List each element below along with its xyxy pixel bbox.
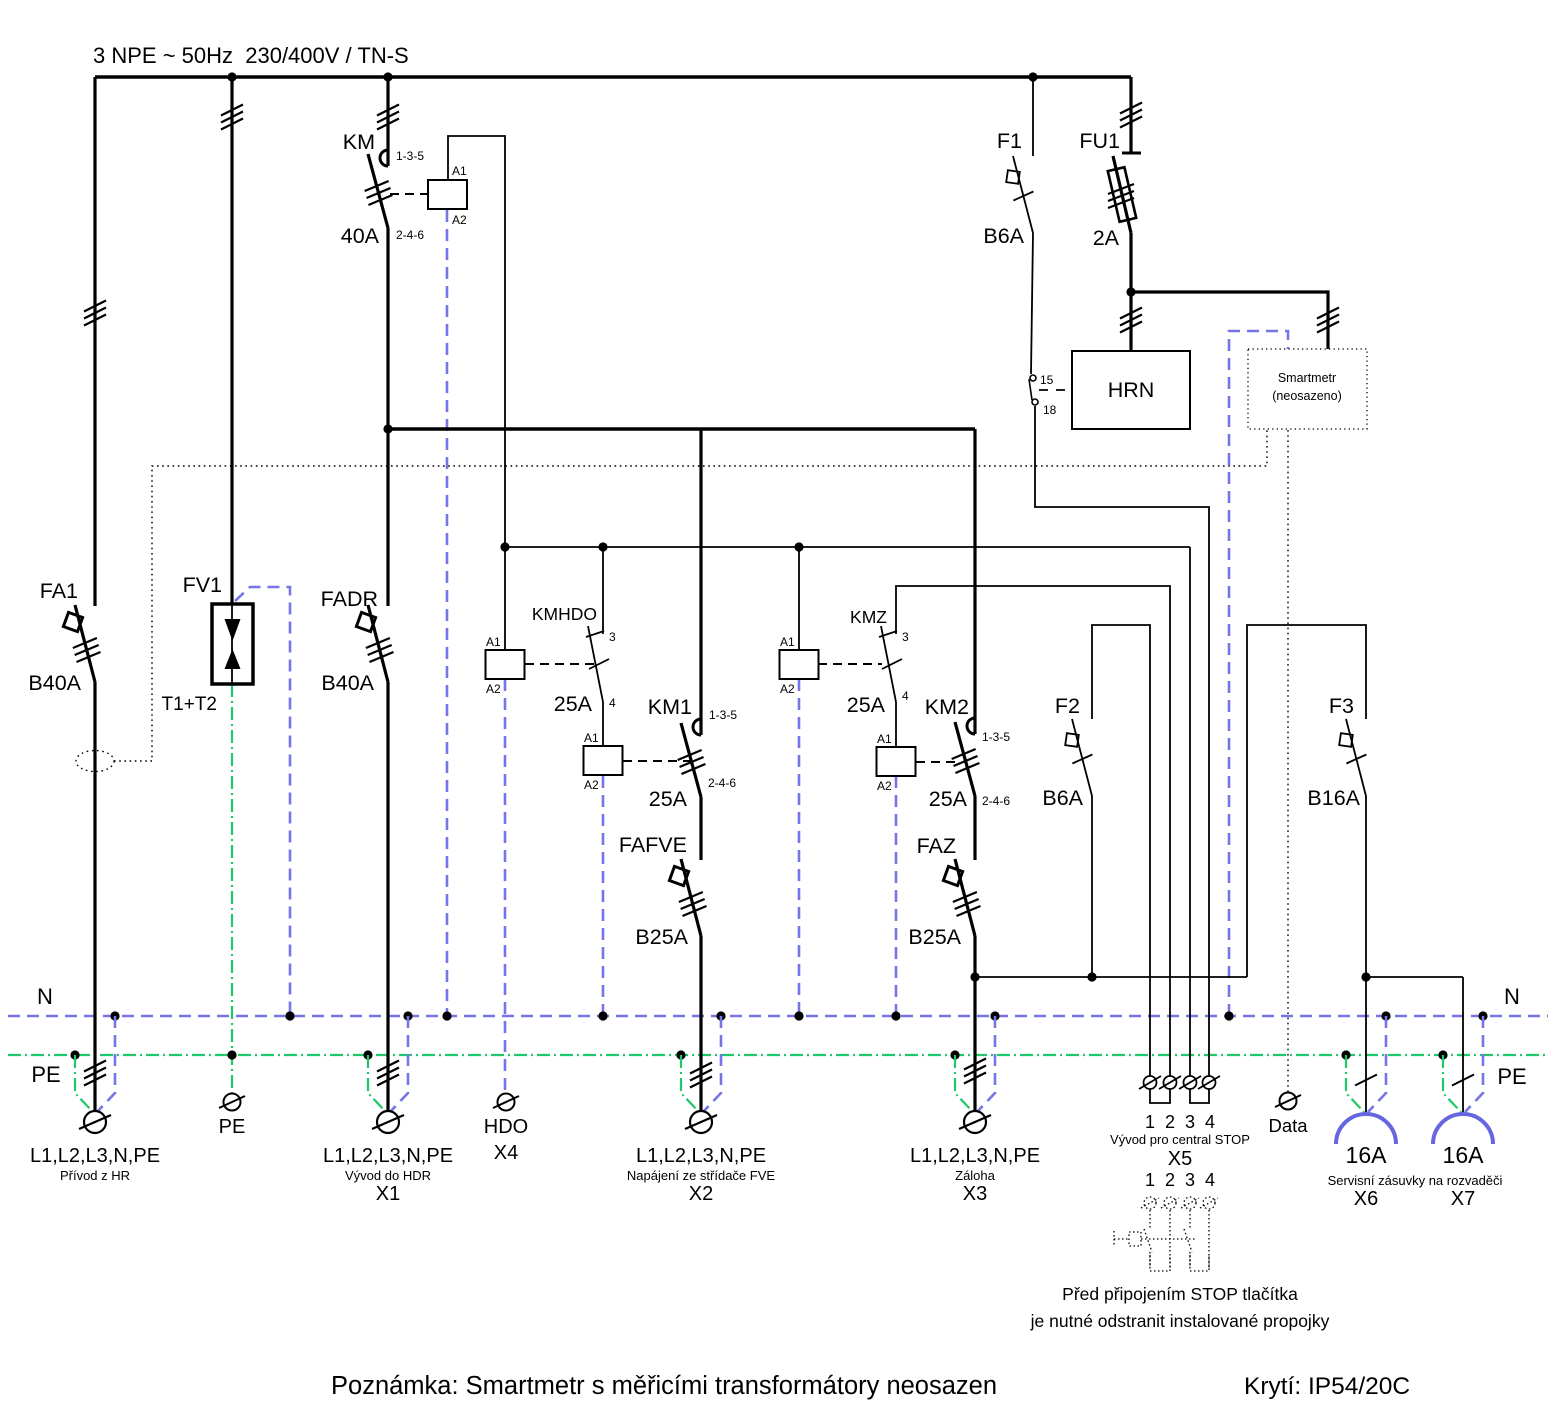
svg-text:Data: Data [1268,1115,1308,1136]
svg-text:4: 4 [902,689,909,703]
svg-text:KM: KM [343,130,375,154]
svg-text:L1,L2,L3,N,PE: L1,L2,L3,N,PE [30,1145,160,1167]
svg-text:KMHDO: KMHDO [532,604,597,624]
svg-text:FAFVE: FAFVE [619,833,687,857]
svg-text:B6A: B6A [983,224,1024,248]
svg-text:16A: 16A [1346,1142,1388,1168]
svg-text:X1: X1 [376,1183,400,1205]
svg-text:A2: A2 [780,682,795,696]
svg-text:2-4-6: 2-4-6 [708,776,736,790]
svg-text:4: 4 [1205,1112,1215,1132]
svg-text:N: N [1504,984,1520,1009]
svg-text:L1,L2,L3,N,PE: L1,L2,L3,N,PE [323,1145,453,1167]
svg-text:Vývod do HDR: Vývod do HDR [345,1168,431,1183]
svg-text:1: 1 [1145,1112,1155,1132]
svg-text:N: N [37,984,53,1009]
svg-text:1-3-5: 1-3-5 [396,149,424,163]
svg-text:je nutné odstranit instalované: je nutné odstranit instalované propojky [1030,1311,1330,1331]
svg-text:F1: F1 [997,129,1022,153]
svg-text:2A: 2A [1093,226,1120,250]
svg-text:B16A: B16A [1307,786,1360,810]
svg-text:B25A: B25A [908,925,961,949]
svg-text:FADR: FADR [321,587,378,611]
svg-text:1-3-5: 1-3-5 [709,708,737,722]
svg-text:B25A: B25A [635,925,688,949]
svg-text:Servisní zásuvky na rozvaděči: Servisní zásuvky na rozvaděči [1328,1173,1503,1188]
svg-text:25A: 25A [847,693,886,717]
svg-text:Vývod pro central STOP: Vývod pro central STOP [1110,1132,1250,1147]
svg-text:X3: X3 [963,1183,987,1205]
svg-text:3: 3 [609,630,616,644]
svg-text:T1+T2: T1+T2 [162,694,217,715]
svg-text:A1: A1 [584,731,599,745]
svg-text:FA1: FA1 [40,579,78,603]
svg-text:3: 3 [1185,1112,1195,1132]
svg-text:A2: A2 [452,213,467,227]
svg-text:X2: X2 [689,1183,713,1205]
svg-text:(neosazeno): (neosazeno) [1272,389,1342,403]
svg-text:25A: 25A [649,787,688,811]
svg-text:A1: A1 [877,732,892,746]
svg-text:KMZ: KMZ [850,607,887,627]
svg-text:FAZ: FAZ [917,834,956,858]
svg-text:3 NPE ~ 50Hz 230/400V / TN-S: 3 NPE ~ 50Hz 230/400V / TN-S [93,43,409,68]
svg-text:Smartmetr: Smartmetr [1278,371,1336,385]
svg-text:FU1: FU1 [1079,129,1120,153]
svg-text:2: 2 [1165,1170,1175,1190]
svg-text:L1,L2,L3,N,PE: L1,L2,L3,N,PE [636,1145,766,1167]
svg-text:1: 1 [1145,1170,1155,1190]
svg-text:B40A: B40A [321,671,374,695]
svg-text:A1: A1 [486,635,501,649]
svg-text:18: 18 [1043,403,1057,417]
svg-text:HDO: HDO [484,1116,528,1138]
svg-text:B6A: B6A [1042,786,1083,810]
svg-text:4: 4 [1205,1170,1215,1190]
svg-text:A2: A2 [584,778,599,792]
svg-text:2-4-6: 2-4-6 [396,228,424,242]
svg-text:3: 3 [1185,1170,1195,1190]
svg-text:KM1: KM1 [648,695,692,719]
svg-text:25A: 25A [929,787,968,811]
svg-text:F3: F3 [1329,694,1354,718]
svg-text:Záloha: Záloha [955,1168,996,1183]
svg-text:FV1: FV1 [183,573,222,597]
svg-text:B40A: B40A [28,671,81,695]
svg-text:F2: F2 [1055,694,1080,718]
svg-text:X7: X7 [1451,1188,1475,1210]
svg-text:40A: 40A [341,224,380,248]
svg-text:A2: A2 [877,779,892,793]
svg-text:KM2: KM2 [925,695,969,719]
svg-text:L1,L2,L3,N,PE: L1,L2,L3,N,PE [910,1145,1040,1167]
svg-text:Před připojením STOP tlačítka: Před připojením STOP tlačítka [1062,1284,1298,1304]
svg-text:3: 3 [902,630,909,644]
svg-text:Napájení ze střídače FVE: Napájení ze střídače FVE [627,1168,775,1183]
svg-text:Krytí: IP54/20C: Krytí: IP54/20C [1244,1373,1410,1400]
svg-text:4: 4 [609,696,616,710]
svg-text:X5: X5 [1168,1148,1192,1170]
svg-text:16A: 16A [1443,1142,1485,1168]
svg-text:Poznámka: Smartmetr s měřicími: Poznámka: Smartmetr s měřicími transform… [331,1372,997,1400]
svg-text:1-3-5: 1-3-5 [982,730,1010,744]
svg-text:A1: A1 [780,635,795,649]
svg-text:HRN: HRN [1108,378,1155,402]
svg-text:2-4-6: 2-4-6 [982,794,1010,808]
svg-text:15: 15 [1040,373,1054,387]
svg-text:PE: PE [219,1116,246,1138]
svg-text:2: 2 [1165,1112,1175,1132]
svg-text:Přívod z HR: Přívod z HR [60,1168,130,1183]
svg-text:A1: A1 [452,164,467,178]
svg-text:PE: PE [1497,1064,1526,1089]
svg-text:X4: X4 [494,1142,518,1164]
svg-text:25A: 25A [554,692,593,716]
svg-text:X6: X6 [1354,1188,1378,1210]
svg-text:A2: A2 [486,682,501,696]
svg-text:PE: PE [31,1062,60,1087]
